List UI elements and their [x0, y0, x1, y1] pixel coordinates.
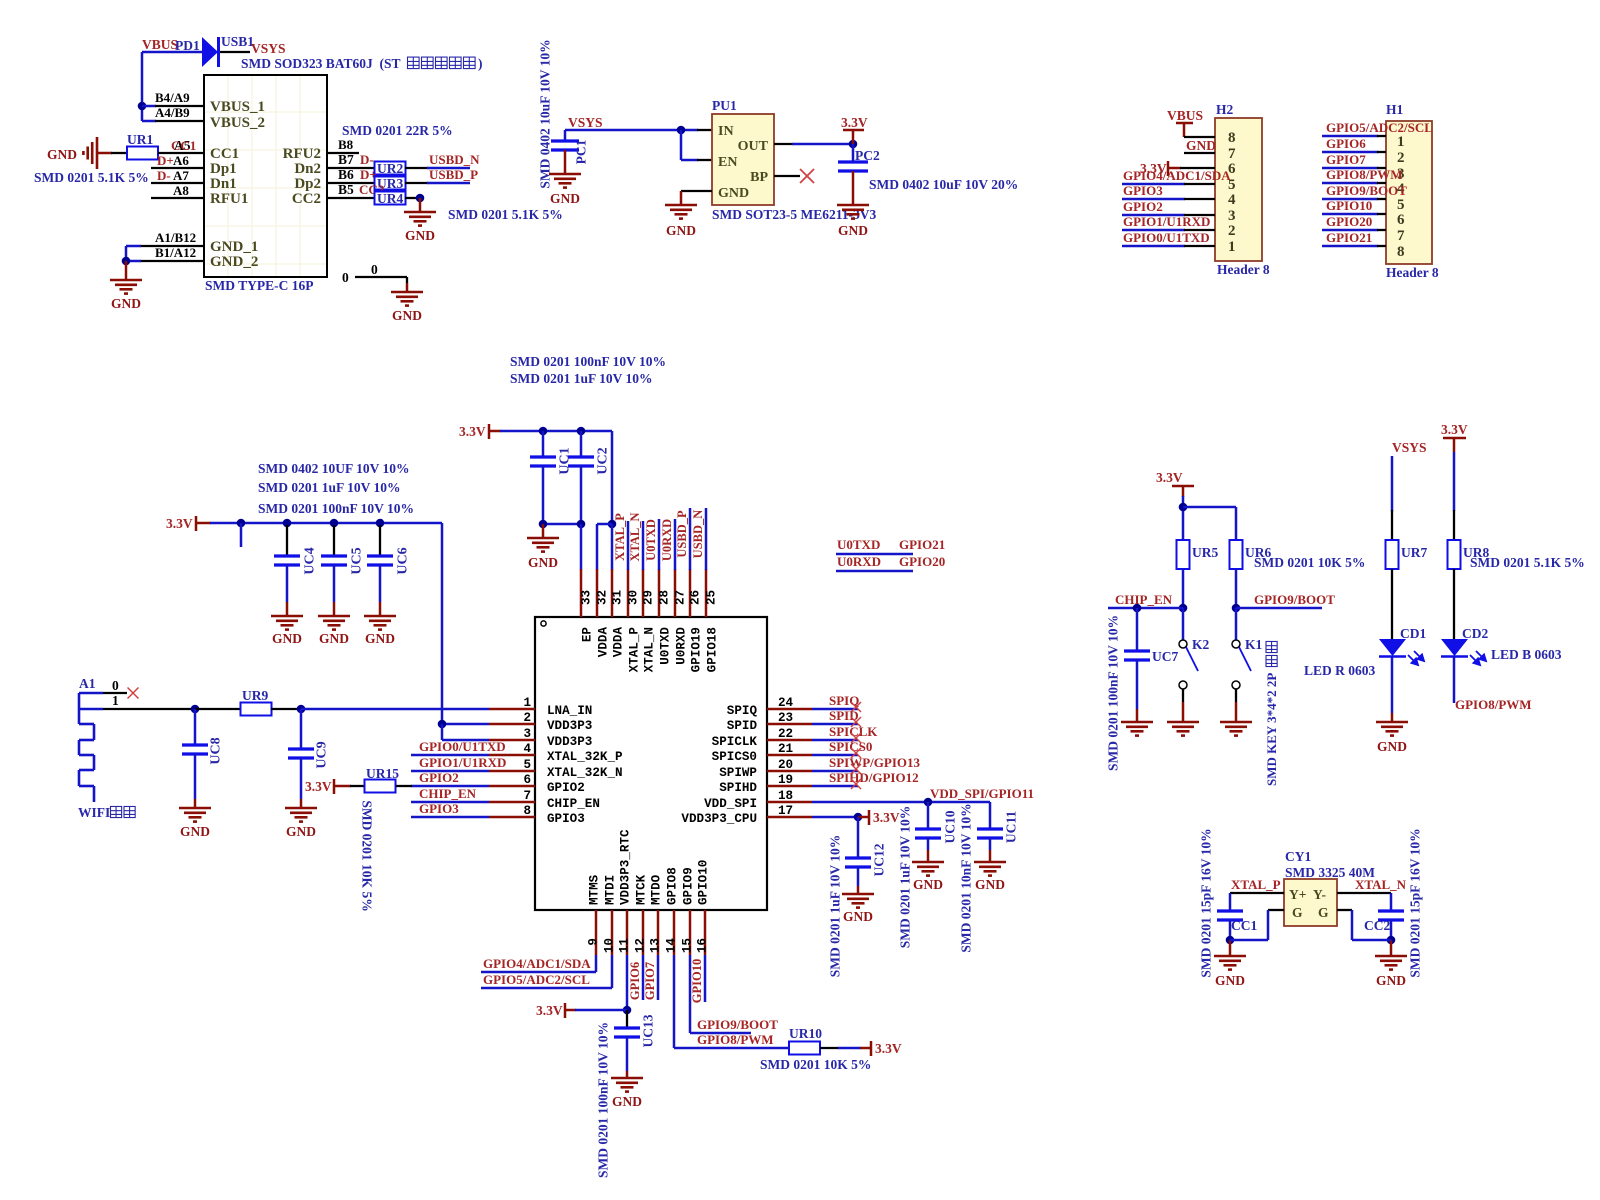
- svg-text:GND: GND: [550, 191, 580, 206]
- svg-text:UR1: UR1: [127, 132, 153, 147]
- wire SPIQ: [812, 693, 861, 712]
- pin names of CY1: [1289, 887, 1329, 920]
- svg-text:GPIO8: GPIO8: [666, 867, 680, 905]
- wire USBD_P (pin26): [675, 508, 690, 570]
- svg-text:19: 19: [778, 773, 793, 787]
- wire GPIO3 pin8: [411, 801, 489, 817]
- svg-text:GPIO2: GPIO2: [419, 770, 459, 785]
- svg-text:SMD 0402 10uF 10V 20%: SMD 0402 10uF 10V 20%: [869, 177, 1018, 192]
- svg-text:SPIWP/GPIO13: SPIWP/GPIO13: [829, 755, 921, 770]
- capacitor UC5: [321, 525, 364, 616]
- pin numbers of H1: [1397, 134, 1405, 260]
- svg-text:XTAL_N: XTAL_N: [1355, 877, 1407, 892]
- resistor UR6: [1230, 540, 1272, 569]
- svg-text:GPIO0/U1TXD: GPIO0/U1TXD: [419, 739, 506, 754]
- svg-text:GND: GND: [286, 824, 316, 839]
- svg-text:UC7: UC7: [1152, 649, 1178, 664]
- wire CC2 pin B5: [327, 182, 384, 198]
- svg-text:GPIO4/ADC1/SDA: GPIO4/ADC1/SDA: [483, 956, 591, 971]
- svg-text:UR4: UR4: [377, 191, 403, 206]
- svg-text:33: 33: [580, 590, 594, 605]
- svg-text:VBUS: VBUS: [1167, 108, 1203, 123]
- svg-text:VDD3P3: VDD3P3: [547, 719, 592, 733]
- svg-text:SMD 0201 5.1K 5%: SMD 0201 5.1K 5%: [1470, 555, 1585, 570]
- svg-text:GND: GND: [528, 555, 558, 570]
- svg-text:12: 12: [634, 938, 648, 953]
- svg-text:5: 5: [1397, 197, 1405, 213]
- value label SMD 0201 100nF 10V 10% (center): [510, 354, 666, 369]
- power symbol 3.3V at H2 pin6: [1140, 161, 1181, 176]
- wire H2 pin6: [1180, 167, 1215, 169]
- svg-text:GPIO8/PWM: GPIO8/PWM: [1455, 697, 1532, 712]
- wire H2 GPIO0/U1TXD: [1122, 230, 1215, 246]
- svg-text:VDD3P3: VDD3P3: [547, 735, 592, 749]
- label WIFI antenna: [78, 805, 135, 820]
- svg-text:30: 30: [627, 590, 641, 605]
- right pins 17-24 of U1: [681, 696, 812, 826]
- value label SMD KEY 3*4*2 2P: [1264, 641, 1279, 786]
- svg-text:VSYS: VSYS: [251, 41, 286, 56]
- wire H2 GPIO3: [1122, 183, 1215, 199]
- resistor UR9: [241, 688, 272, 716]
- value label SMD 0201 100nF 10V 10% (UC7): [1105, 615, 1120, 771]
- label SMD SOT23-5 ME6211-3V3: [712, 207, 877, 222]
- svg-text:USBD_P: USBD_P: [675, 510, 689, 558]
- svg-text:UR15: UR15: [366, 766, 399, 781]
- power symbol VBUS at H2 pin8: [1167, 108, 1203, 137]
- svg-text:7: 7: [1397, 228, 1405, 244]
- svg-text:SPICLK: SPICLK: [829, 724, 878, 739]
- svg-text:B7: B7: [338, 152, 354, 167]
- power symbol 3.3V at UR5: [1156, 470, 1194, 497]
- wire SPID: [812, 708, 861, 727]
- wire GPIO4/ADC1/SDA pin9: [481, 955, 596, 972]
- svg-text:SPICLK: SPICLK: [712, 735, 758, 749]
- wire VBUS: [138, 52, 203, 121]
- wire Dn1 pin A7 D-: [151, 168, 204, 183]
- svg-text:UR7: UR7: [1401, 545, 1427, 560]
- net label VSYS: [251, 41, 286, 56]
- svg-text:EP: EP: [581, 627, 595, 643]
- net alias U0RXD = GPIO20: [836, 554, 945, 571]
- svg-text:CD1: CD1: [1400, 626, 1426, 641]
- svg-text:GND: GND: [666, 223, 696, 238]
- svg-text:GPIO10: GPIO10: [690, 959, 704, 1003]
- wire GPIO7 pin13: [643, 955, 658, 1000]
- svg-text:CC2: CC2: [292, 191, 321, 207]
- wire H2 GPIO4/ADC1/SDA: [1122, 168, 1231, 184]
- value label SMD 0201 15pF 16V 10% (CC2): [1407, 828, 1422, 977]
- svg-text:GND: GND: [838, 223, 868, 238]
- svg-text:CC2: CC2: [1364, 918, 1390, 933]
- svg-text:GPIO1/U1RXD: GPIO1/U1RXD: [1123, 214, 1210, 229]
- left pins 1-8 of U1: [489, 696, 623, 826]
- svg-text:A4/B9: A4/B9: [155, 105, 190, 120]
- svg-text:13: 13: [649, 938, 663, 953]
- ground symbol below PU1: [665, 205, 697, 238]
- wire antenna to UR9: [103, 705, 241, 714]
- svg-text:SMD 0201 100nF 10V 10%: SMD 0201 100nF 10V 10%: [1105, 615, 1120, 771]
- wire USBD_N (pin25): [691, 508, 706, 570]
- wire EP ground tie: [539, 466, 586, 570]
- svg-text:USB1: USB1: [221, 34, 254, 49]
- svg-text:B8: B8: [338, 137, 354, 152]
- svg-text:GND: GND: [612, 1094, 642, 1109]
- svg-text:GND: GND: [392, 308, 422, 323]
- svg-text:4: 4: [523, 742, 531, 756]
- svg-text:GPIO10: GPIO10: [697, 860, 711, 905]
- svg-text:GND: GND: [319, 631, 349, 646]
- resistor UR10: [789, 1026, 822, 1055]
- svg-text:UC1: UC1: [557, 447, 572, 474]
- value label SMD 0201 5.1K 5%: [34, 170, 149, 185]
- svg-text:CHIP_EN: CHIP_EN: [547, 797, 600, 811]
- wire XTAL_N to CY1: [1337, 877, 1407, 911]
- svg-text:GPIO10: GPIO10: [1326, 198, 1372, 213]
- svg-text:GPIO5/ADC2/SCL: GPIO5/ADC2/SCL: [483, 972, 590, 987]
- resistor UR7: [1386, 540, 1428, 569]
- wire 3.3V to UR5 UR6: [1179, 496, 1236, 540]
- ground symbol below UC12: [842, 894, 874, 924]
- wire XTAL_N (pin29): [628, 512, 643, 570]
- crystal CY1 body: [1284, 849, 1375, 926]
- svg-text:3: 3: [523, 727, 531, 741]
- value label SMD 0201 100nF 10V 10%: [258, 501, 414, 516]
- svg-text:Y+: Y+: [1289, 887, 1306, 902]
- power symbol 3.3V left rail: [166, 516, 211, 531]
- svg-text:25: 25: [705, 590, 719, 605]
- svg-text:VBUS_2: VBUS_2: [210, 115, 265, 131]
- svg-text:SMD 0201 1uF 10V 10%: SMD 0201 1uF 10V 10%: [897, 806, 912, 949]
- ground symbol below TYPE-C: [110, 261, 142, 311]
- svg-text:MTDI: MTDI: [604, 875, 618, 905]
- value label SMD 0201 1uF 10V 10% (UC12): [827, 835, 842, 978]
- svg-text:8: 8: [1228, 130, 1236, 146]
- label SMD TYPE-C 16P: [205, 278, 314, 293]
- svg-text:D-: D-: [157, 168, 171, 183]
- svg-text:GND: GND: [1186, 138, 1216, 153]
- svg-text:CC1: CC1: [1231, 918, 1257, 933]
- svg-text:SMD 0201 10nF 10V 10%: SMD 0201 10nF 10V 10%: [958, 803, 973, 952]
- svg-text:GND: GND: [1215, 973, 1245, 988]
- svg-text:11: 11: [618, 938, 632, 954]
- svg-text:UC12: UC12: [871, 843, 886, 876]
- svg-text:XTAL_N: XTAL_N: [643, 627, 657, 672]
- capacitor UC8: [182, 709, 223, 808]
- svg-text:): ): [478, 56, 483, 71]
- value label SMD 0201 22R 5%: [342, 123, 453, 138]
- svg-text:VSYS: VSYS: [1392, 440, 1427, 455]
- value label SMD 0201 15pF 16V 10% (CC1): [1198, 828, 1213, 977]
- svg-text:UR10: UR10: [789, 1026, 822, 1041]
- label LED R 0603: [1304, 663, 1376, 678]
- wire GPIO1/U1RXD pin5: [411, 755, 506, 771]
- svg-text:8: 8: [1397, 244, 1405, 260]
- svg-text:USBD_N: USBD_N: [429, 152, 480, 167]
- value label SMD 0402 10uF 10V 10% (PC1): [537, 39, 552, 188]
- ground symbol below K1: [1220, 722, 1252, 736]
- resistor UR8: [1448, 540, 1490, 569]
- ground symbol at UR1: [47, 137, 97, 169]
- net label VSYS at PU1: [568, 115, 603, 130]
- pin numbers of H2: [1228, 130, 1236, 255]
- svg-text:VDD3P3_RTC: VDD3P3_RTC: [619, 829, 633, 905]
- net label GND at H2 pin7: [1186, 138, 1216, 153]
- power symbol 3.3V at UC1: [459, 424, 501, 439]
- svg-text:GPIO8/PWM: GPIO8/PWM: [1326, 167, 1403, 182]
- svg-text:GPIO4/ADC1/SDA: GPIO4/ADC1/SDA: [1123, 168, 1231, 183]
- capacitor UC6: [367, 525, 410, 616]
- wire GND to UR1: [97, 152, 127, 155]
- svg-text:VSYS: VSYS: [568, 115, 603, 130]
- wire GPIO5/ADC2/SCL pin10: [481, 955, 612, 988]
- svg-text:SMD 0201 15pF 16V 10%: SMD 0201 15pF 16V 10%: [1407, 828, 1422, 977]
- svg-text:MTDO: MTDO: [650, 874, 664, 905]
- resistor UR2: [375, 161, 406, 176]
- value label SMD 0201 5.1K 5% (UR4): [448, 207, 563, 222]
- svg-text:XTAL_P: XTAL_P: [613, 513, 627, 561]
- svg-text:UC2: UC2: [595, 447, 610, 474]
- ground symbol below UC10: [912, 862, 944, 892]
- wire GPIO2 pin6: [411, 770, 489, 786]
- header H1 body: [1386, 102, 1439, 280]
- wire CC1 pin A5: [158, 138, 204, 153]
- svg-text:CC1: CC1: [171, 138, 196, 153]
- wire SPICS0: [812, 739, 872, 758]
- resistor UR1: [127, 132, 158, 160]
- wire H2 pin7: [1184, 152, 1215, 154]
- svg-text:UC8: UC8: [208, 737, 223, 764]
- pin names of TYPE-C: [210, 99, 321, 270]
- svg-text:SMD 0201 100nF 10V 10%: SMD 0201 100nF 10V 10%: [510, 354, 666, 369]
- ground symbol of 0 ohm link: [391, 292, 423, 323]
- svg-text:SMD 0201 1uF 10V 10%: SMD 0201 1uF 10V 10%: [827, 835, 842, 978]
- svg-text:A1: A1: [79, 676, 96, 691]
- capacitor PC2: [838, 144, 880, 205]
- svg-text:GND: GND: [718, 186, 749, 201]
- resistor UR3: [375, 176, 406, 191]
- wire GND_2 pin B1/A12: [122, 245, 204, 265]
- wire Dp2 pin B6: [327, 167, 377, 183]
- wire CY1 right G pin: [1337, 910, 1391, 940]
- svg-text:CHIP_EN: CHIP_EN: [419, 786, 477, 801]
- svg-text:BP: BP: [750, 170, 768, 185]
- svg-text:XTAL_N: XTAL_N: [628, 512, 642, 561]
- svg-text:GPIO9/BOOT: GPIO9/BOOT: [1326, 183, 1407, 198]
- svg-text:D-: D-: [360, 152, 374, 167]
- wire SPIHD/GPIO12: [812, 770, 919, 789]
- capacitor UC4: [274, 525, 317, 616]
- svg-text:UC9: UC9: [314, 741, 329, 768]
- wire VSYS from diode: [220, 51, 250, 53]
- svg-text:U0TXD: U0TXD: [659, 627, 673, 665]
- svg-text:GPIO2: GPIO2: [547, 781, 585, 795]
- value label SMD SOD323 BAT60J (ST): [241, 56, 483, 71]
- ground symbol below UC6: [364, 616, 396, 646]
- wire XTAL_P to CY1: [1230, 877, 1284, 911]
- svg-text:SPICS0: SPICS0: [712, 750, 757, 764]
- wire XTAL_P (pin30): [613, 513, 628, 570]
- svg-text:Header 8: Header 8: [1217, 262, 1270, 277]
- wire U0RXD (pin27): [660, 519, 675, 570]
- svg-text:SPIHD/GPIO12: SPIHD/GPIO12: [829, 770, 919, 785]
- ground symbol below UR4: [404, 212, 436, 243]
- svg-text:3.3V: 3.3V: [305, 779, 332, 794]
- wire GPIO9/BOOT net at UR6: [1232, 569, 1336, 612]
- svg-text:LNA_IN: LNA_IN: [547, 704, 592, 718]
- capacitor UC13: [614, 1010, 655, 1078]
- svg-text:SMD 0201 5.1K 5%: SMD 0201 5.1K 5%: [448, 207, 563, 222]
- wire U0TXD (pin28): [644, 519, 659, 570]
- svg-text:GND: GND: [405, 228, 435, 243]
- svg-text:MTCK: MTCK: [635, 874, 649, 905]
- svg-text:1: 1: [1397, 134, 1405, 150]
- ground symbol below CC2: [1375, 956, 1407, 988]
- svg-text:29: 29: [642, 590, 656, 605]
- svg-text:VDD3P3_CPU: VDD3P3_CPU: [681, 812, 757, 826]
- value label SMD 0201 10K 5% (UR5 UR6): [1254, 555, 1365, 570]
- wire VDD3P3_RTC pin11: [575, 955, 631, 1014]
- svg-text:GPIO21: GPIO21: [1326, 230, 1372, 245]
- power symbol 3.3V at UR10: [871, 1041, 902, 1056]
- svg-text:15: 15: [681, 938, 695, 953]
- svg-text:G: G: [1318, 905, 1329, 920]
- svg-text:5: 5: [523, 758, 531, 772]
- svg-text:14: 14: [665, 938, 679, 954]
- svg-text:UC11: UC11: [1003, 811, 1018, 844]
- svg-text:PU1: PU1: [712, 98, 737, 113]
- svg-text:CHIP_EN: CHIP_EN: [1115, 592, 1173, 607]
- svg-text:XTAL_32K_P: XTAL_32K_P: [547, 750, 623, 764]
- svg-text:3.3V: 3.3V: [536, 1003, 563, 1018]
- svg-text:SMD 0201 100nF 10V 10%: SMD 0201 100nF 10V 10%: [258, 501, 414, 516]
- wire GPIO9/BOOT pin15: [690, 955, 778, 1033]
- ground symbol below UC4: [271, 616, 303, 646]
- svg-text:LED B 0603: LED B 0603: [1491, 647, 1562, 662]
- wire GPIO8/PWM pin14 to UR10: [674, 955, 789, 1048]
- wire VSYS to UR7: [1391, 456, 1394, 540]
- wire 3.3V rail: [210, 519, 442, 724]
- wire OUT to 3.3V: [774, 140, 857, 149]
- svg-text:UR2: UR2: [377, 161, 403, 176]
- ground symbol below PC1: [549, 174, 581, 206]
- svg-text:8: 8: [523, 804, 531, 818]
- svg-text:U0RXD: U0RXD: [675, 627, 689, 665]
- svg-text:31: 31: [611, 589, 625, 605]
- svg-text:CY1: CY1: [1285, 849, 1311, 864]
- switch K2: [1179, 608, 1210, 722]
- value label SMD 0201 10K 5% (UR10): [760, 1057, 871, 1072]
- svg-text:GPIO20: GPIO20: [899, 554, 945, 569]
- wire CY1 left G pin: [1230, 910, 1284, 940]
- svg-text:UR5: UR5: [1192, 545, 1218, 560]
- capacitor PC1: [551, 130, 588, 174]
- value label SMD 0201 1uF 10V 10% (center): [510, 371, 653, 386]
- svg-text:0: 0: [342, 270, 349, 285]
- svg-text:D+: D+: [157, 153, 174, 168]
- svg-text:XTAL_32K_N: XTAL_32K_N: [547, 766, 623, 780]
- svg-text:B1/A12: B1/A12: [155, 245, 196, 260]
- svg-text:GPIO9/BOOT: GPIO9/BOOT: [697, 1017, 778, 1032]
- wire BP no connect: [774, 169, 814, 183]
- svg-text:GPIO6: GPIO6: [1326, 136, 1366, 151]
- wire GND_1 pin A1/B12: [126, 230, 204, 246]
- svg-text:SMD 0201 10K 5%: SMD 0201 10K 5%: [1254, 555, 1365, 570]
- svg-text:SPIQ: SPIQ: [727, 704, 758, 718]
- svg-text:GND: GND: [111, 296, 141, 311]
- svg-text:GPIO3: GPIO3: [547, 812, 585, 826]
- svg-text:16: 16: [696, 938, 710, 953]
- svg-text:XTAL_P: XTAL_P: [1231, 877, 1281, 892]
- wire SPIWP/GPIO13: [812, 755, 921, 774]
- svg-text:GND: GND: [913, 877, 943, 892]
- wire H1 GPIO8/PWM: [1322, 167, 1403, 183]
- wire SPICLK: [812, 724, 878, 743]
- wire EN: [681, 130, 712, 160]
- svg-text:28: 28: [658, 590, 672, 605]
- svg-text:18: 18: [778, 789, 793, 803]
- svg-text:6: 6: [1397, 212, 1405, 228]
- svg-text:CC1: CC1: [210, 146, 239, 162]
- svg-text:UC5: UC5: [349, 547, 364, 574]
- svg-text:U0RXD: U0RXD: [837, 554, 881, 569]
- svg-text:GPIO7: GPIO7: [1326, 152, 1366, 167]
- svg-text:U0RXD: U0RXD: [660, 519, 674, 561]
- svg-text:SPID: SPID: [727, 719, 758, 733]
- svg-text:GND: GND: [1377, 739, 1407, 754]
- svg-text:SPIHD: SPIHD: [719, 781, 757, 795]
- svg-text:B6: B6: [338, 167, 354, 182]
- svg-text:UC10: UC10: [942, 810, 957, 843]
- svg-text:3.3V: 3.3V: [1156, 470, 1183, 485]
- svg-text:7: 7: [523, 789, 531, 803]
- label LED B 0603: [1491, 647, 1562, 662]
- svg-text:GPIO19: GPIO19: [690, 627, 704, 672]
- resistor UR4: [375, 191, 406, 206]
- pin A4/B9 wire VBUS_2: [142, 105, 204, 121]
- ground symbol below UC11: [974, 862, 1006, 892]
- svg-text:SPIWP: SPIWP: [719, 766, 757, 780]
- pin names of PU1: [718, 124, 769, 201]
- resistor UR5: [1177, 540, 1219, 569]
- bottom pins 9-16 of U1: [587, 829, 711, 955]
- svg-text:9: 9: [587, 938, 601, 946]
- wire H1 GPIO5/ADC2/SCL: [1322, 120, 1433, 136]
- net label USB1: [221, 34, 254, 49]
- pin B4/A9 wire VBUS_1: [142, 90, 204, 106]
- svg-text:GPIO1/U1RXD: GPIO1/U1RXD: [419, 755, 506, 770]
- wire H2 GPIO2: [1122, 199, 1215, 215]
- capacitor UC7: [1124, 608, 1178, 722]
- wire VDD3P3 pin3: [442, 724, 489, 740]
- svg-text:Dp2: Dp2: [294, 176, 321, 192]
- svg-text:SMD 0201 15pF 16V 10%: SMD 0201 15pF 16V 10%: [1198, 828, 1213, 977]
- ground symbol below UC5: [318, 616, 350, 646]
- wire 3.3V to VDDA pins: [500, 427, 616, 570]
- svg-text:GND: GND: [272, 631, 302, 646]
- svg-text:UC4: UC4: [302, 547, 317, 574]
- wire CD2 to GPIO8/PWM: [1454, 657, 1532, 712]
- svg-text:A8: A8: [173, 183, 189, 198]
- wire CHIP_EN net: [1108, 569, 1187, 612]
- LED CD1: [1379, 569, 1426, 665]
- svg-text:U0TXD: U0TXD: [644, 519, 658, 561]
- svg-text:OUT: OUT: [738, 139, 769, 154]
- svg-text:26: 26: [689, 590, 703, 605]
- svg-text:SMD 0201 22R 5%: SMD 0201 22R 5%: [342, 123, 453, 138]
- svg-text:GND_2: GND_2: [210, 254, 258, 270]
- svg-text:0: 0: [112, 678, 119, 693]
